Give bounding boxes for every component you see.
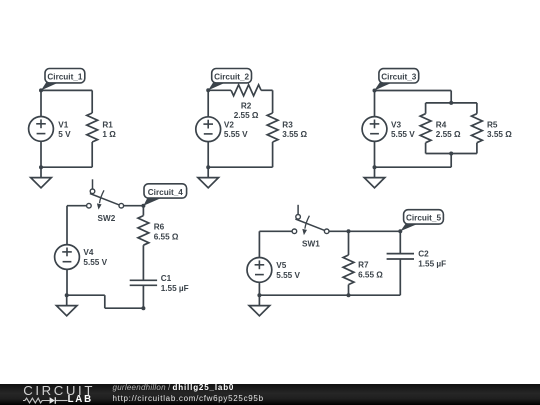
svg-text:C1: C1 (161, 274, 172, 283)
svg-text:R1: R1 (102, 120, 113, 129)
attribution line 2 (url text, not a link) (113, 395, 264, 403)
junction V5 ground node (257, 293, 261, 297)
node label Circuit_4 (143, 184, 186, 206)
wire: R5 bottom stub (476, 143, 478, 154)
label V4 (83, 248, 107, 267)
wire: C2 bottom (399, 259, 401, 295)
svg-text:R3: R3 (282, 120, 293, 129)
wire: C1 bottom (142, 285, 144, 308)
svg-text:V5: V5 (276, 261, 286, 270)
svg-text:Circuit_4: Circuit_4 (148, 188, 183, 197)
ground circuit 1 (31, 167, 52, 188)
voltage source V4 (55, 245, 80, 270)
CircuitLab logo zigzag + diode (23, 395, 68, 405)
wire: V4 bottom (66, 269, 68, 295)
label R2 (234, 101, 259, 120)
label R3 (282, 120, 307, 139)
node label Circuit_1 (41, 69, 85, 91)
junction SW2-R6 node (141, 204, 145, 208)
wire: circuit 3 top (375, 90, 452, 92)
node label Circuit_2 (208, 69, 251, 91)
label V1 (58, 120, 71, 139)
svg-text:1.55 µF: 1.55 µF (418, 259, 446, 268)
junction circuit 3 bottom-left (373, 165, 377, 169)
capacitor C1 (130, 280, 157, 285)
svg-text:V2: V2 (224, 120, 234, 129)
resistor R1 (87, 113, 98, 142)
junction circuit 2 bottom-left (206, 165, 210, 169)
svg-text:5.55 V: 5.55 V (391, 130, 415, 139)
voltage source V5 (247, 258, 272, 283)
ground circuit 5 (249, 295, 270, 316)
wire: circuit 3 bottom (375, 166, 452, 168)
junction C1 bottom (141, 306, 145, 310)
junction V4 ground node (65, 293, 69, 297)
wire: to SW2 left terminal (67, 205, 87, 207)
junction circuit 1 bottom-left (39, 165, 43, 169)
resistor R7 (343, 255, 354, 285)
junction parallel bottom (449, 152, 453, 156)
svg-text:2.55 Ω: 2.55 Ω (436, 130, 461, 139)
wire: circuit 2 right top stub (272, 90, 274, 113)
junction parallel top (449, 101, 453, 105)
wire: C2 top (399, 231, 401, 253)
svg-text:5.55 V: 5.55 V (276, 271, 300, 280)
resistor R6 (138, 216, 149, 246)
resistor R3 (267, 113, 278, 142)
label R4 (436, 120, 461, 139)
CircuitLab logo text (23, 384, 95, 397)
wire: circuit 1 right bottom stub (91, 142, 93, 167)
svg-text:6.55 Ω: 6.55 Ω (154, 233, 179, 242)
wire: circuit 2 right bottom stub (272, 142, 274, 167)
resistor R5 (472, 114, 483, 143)
label C2 (418, 250, 446, 269)
svg-text:R2: R2 (241, 101, 252, 110)
label V5 (276, 261, 300, 280)
capacitor C2 (387, 254, 414, 259)
resistor R2 (231, 85, 261, 96)
svg-text:SW1: SW1 (302, 239, 320, 248)
svg-text:Circuit_3: Circuit_3 (381, 73, 416, 82)
wire: circuit 4 bottom to V4 (67, 294, 105, 296)
voltage source V1 (29, 116, 54, 141)
svg-text:SW2: SW2 (98, 214, 116, 223)
wire: circuit 4 bottom run (105, 307, 144, 309)
svg-text:Circuit_2: Circuit_2 (214, 73, 249, 82)
svg-text:6.55 Ω: 6.55 Ω (358, 271, 383, 280)
svg-text:3.55 Ω: 3.55 Ω (487, 130, 512, 139)
resistor R4 (420, 114, 431, 143)
wire: circuit 3 left top (374, 91, 376, 118)
wire: circuit 3 top drop (450, 91, 452, 103)
wire: circuit 1 bottom (41, 166, 92, 168)
svg-text:5 V: 5 V (58, 130, 71, 139)
switch SW1 (292, 205, 329, 235)
label R7 (358, 261, 383, 280)
svg-text:1.55 µF: 1.55 µF (161, 284, 189, 293)
svg-text:Circuit_1: Circuit_1 (47, 73, 82, 82)
svg-text:R4: R4 (436, 120, 447, 129)
wire: SW1 right to C2 corner (329, 230, 400, 232)
wire: SW2 right to node (124, 205, 144, 207)
junction C2 top (398, 229, 402, 233)
wire: R6 top stub (142, 206, 144, 216)
voltage source V2 (196, 117, 221, 142)
label V3 (391, 120, 415, 139)
voltage source V3 (362, 117, 387, 142)
bottom CircuitLab bar (0, 384, 540, 405)
wire: to SW1 left terminal (259, 230, 292, 232)
svg-text:R7: R7 (358, 261, 369, 270)
wire: circuit 3 left bottom (374, 141, 376, 167)
wire: circuit 5 bottom (259, 294, 400, 296)
wire: circuit 2 bottom (208, 166, 272, 168)
ground circuit 3 (364, 167, 385, 188)
svg-text:5.55 V: 5.55 V (224, 130, 248, 139)
wire: R7 top stub (348, 231, 350, 255)
svg-text:1 Ω: 1 Ω (102, 130, 116, 139)
wire: R4 top stub (425, 103, 427, 114)
wire: circuit 1 left top (40, 90, 42, 117)
junction circuit 3 top-left (373, 89, 377, 93)
label R5 (487, 120, 512, 139)
wire: V4 top to switch level (66, 206, 68, 245)
wire: circuit 2 left top (207, 90, 209, 117)
svg-text:R6: R6 (154, 223, 165, 232)
wire: R6 to C1 (142, 245, 144, 280)
wire: R5 top stub (476, 103, 478, 114)
wire: R4 bottom stub (425, 143, 427, 154)
wire: circuit 2 top left (208, 89, 231, 91)
label R6 (154, 223, 179, 242)
wire: V5 bottom (258, 282, 260, 296)
label C1 (161, 274, 189, 293)
svg-text:5.55 V: 5.55 V (83, 258, 107, 267)
svg-text:2.55 Ω: 2.55 Ω (234, 111, 259, 120)
label R1 (102, 120, 116, 139)
svg-text:3.55 Ω: 3.55 Ω (282, 130, 307, 139)
wire: circuit 2 top right (261, 89, 273, 91)
node label Circuit_3 (374, 69, 418, 91)
label V2 (224, 120, 248, 139)
wire: circuit 4 bottom rise (104, 295, 106, 308)
ground circuit 2 (198, 167, 219, 188)
svg-text:V4: V4 (83, 248, 93, 257)
svg-text:V3: V3 (391, 120, 401, 129)
wire: circuit 1 right top stub (91, 90, 93, 113)
wire: circuit 3 bottom drop (450, 154, 452, 168)
wire: V5 top to switch level (258, 231, 260, 258)
svg-text:C2: C2 (418, 250, 429, 259)
junction R7 bottom (347, 293, 351, 297)
node label Circuit_5 (400, 210, 443, 231)
junction circuit 2 top-left (206, 88, 210, 92)
svg-text:V1: V1 (58, 120, 68, 129)
switch SW2 (87, 179, 124, 209)
wire: R7 bottom stub (348, 285, 350, 296)
junction circuit 1 top-left (39, 88, 43, 92)
wire: circuit 2 left bottom (207, 141, 209, 167)
wire: circuit 1 top (41, 89, 92, 91)
svg-text:Circuit_5: Circuit_5 (406, 214, 441, 223)
junction SW1-R7 node (347, 229, 351, 233)
wire: parallel rect top (426, 102, 477, 104)
ground circuit 4 (56, 295, 77, 316)
wire: circuit 1 left bottom (40, 141, 42, 167)
wire: parallel rect bottom (426, 153, 477, 155)
svg-text:R5: R5 (487, 120, 498, 129)
attribution line 1 (113, 384, 235, 392)
